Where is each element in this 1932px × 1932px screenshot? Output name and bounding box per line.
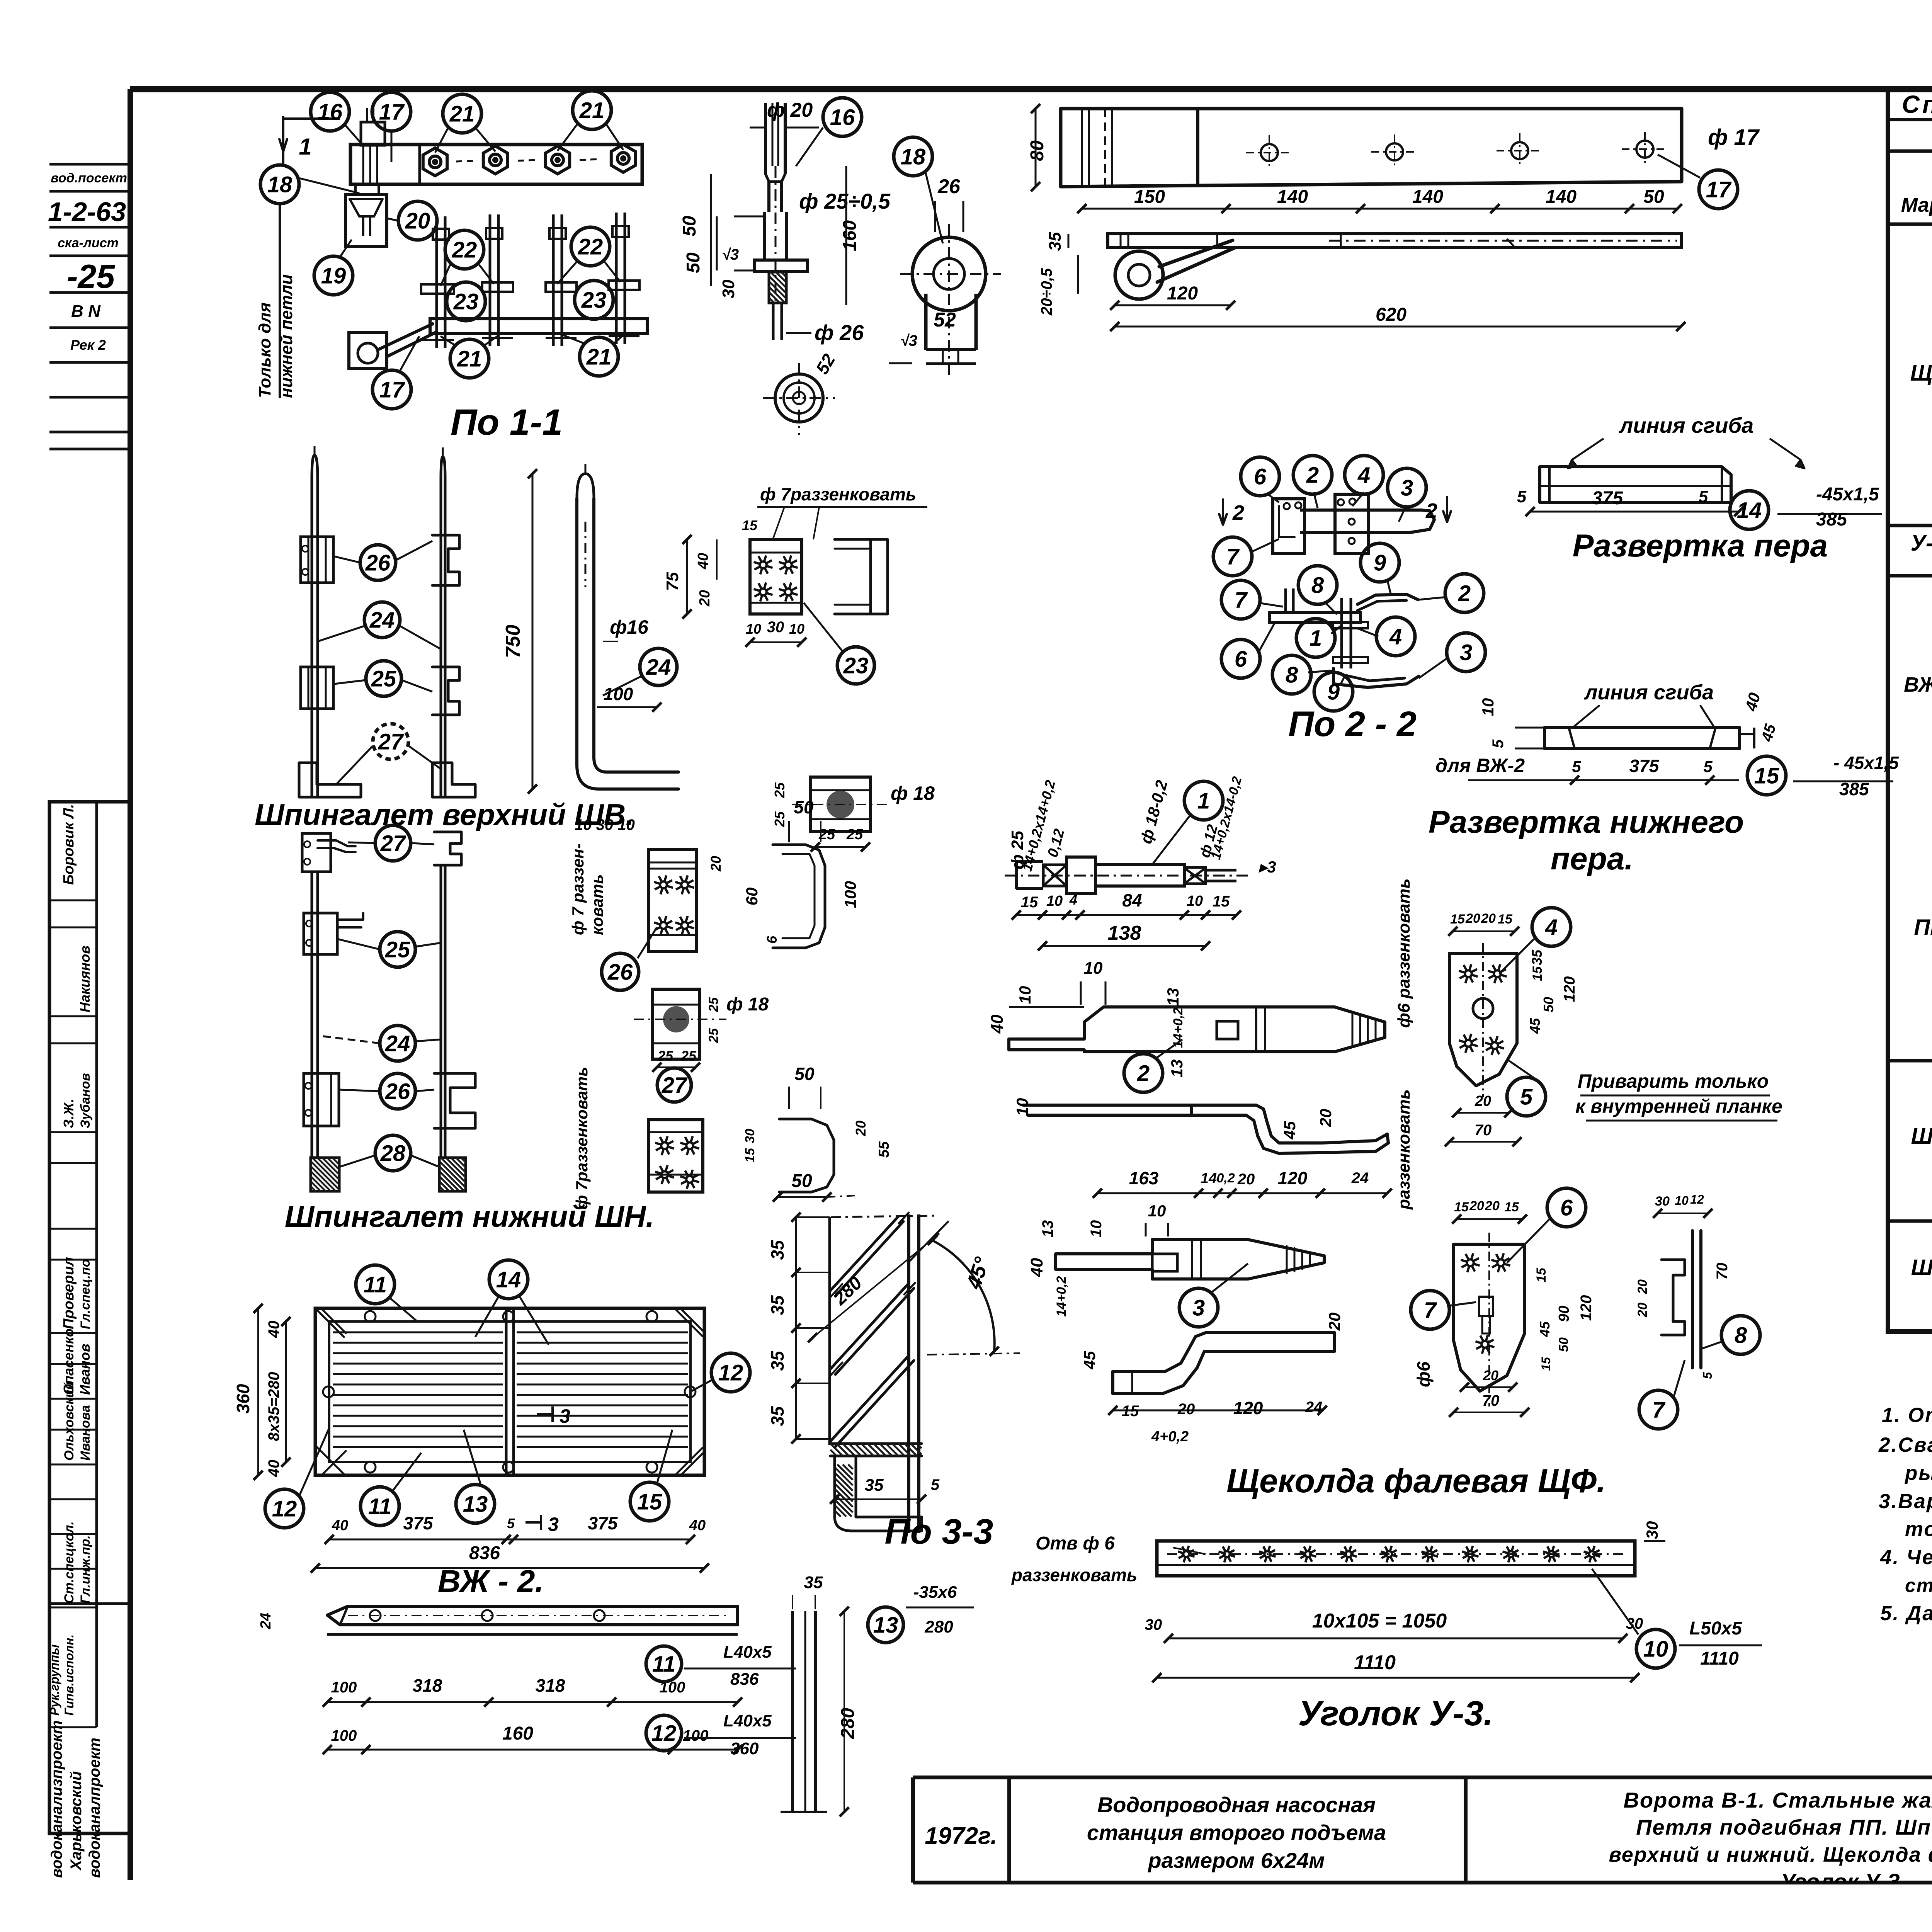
balloon 3 — [1447, 633, 1485, 672]
svg-text:17: 17 — [379, 377, 405, 402]
svg-text:7: 7 — [1235, 587, 1248, 612]
svg-text:15: 15 — [1454, 1200, 1469, 1214]
svg-text:▸3: ▸3 — [1259, 858, 1276, 876]
svg-text:50: 50 — [1643, 187, 1664, 207]
svg-text:52: 52 — [934, 309, 956, 331]
svg-text:100: 100 — [683, 1727, 709, 1744]
balloon 1 — [1184, 781, 1223, 820]
po 2-2 section marks — [1222, 498, 1224, 526]
svg-text:23: 23 — [453, 289, 479, 314]
balloon 15 — [630, 1482, 669, 1521]
upper star plate — [750, 539, 802, 614]
po 3-3 left rail — [828, 1217, 831, 1445]
svg-text:ШВ: ШВ — [1911, 1124, 1932, 1149]
svg-text:Рук.группы: Рук.группы — [48, 1645, 61, 1716]
svg-text:Ворота В-1. Стальные жалюзи: Ворота В-1. Стальные жалюзи ВЖ-2. — [1623, 1788, 1932, 1812]
svg-text:24: 24 — [1305, 1399, 1323, 1416]
balloon 2 — [1124, 1054, 1163, 1092]
svg-text:70: 70 — [1714, 1263, 1731, 1280]
balloon 24 — [380, 1026, 415, 1061]
svg-text:Щеколда фалевая ЩФ.: Щеколда фалевая ЩФ. — [1226, 1463, 1606, 1500]
svg-text:линия сгиба: линия сгиба — [1583, 681, 1714, 704]
svg-text:15: 15 — [1754, 763, 1779, 788]
svg-text:Иванов: Иванов — [77, 1344, 93, 1395]
svg-text:30: 30 — [1655, 1194, 1670, 1209]
shpingalet nizhnij top brackets — [302, 833, 331, 872]
hinge corner block — [349, 333, 387, 369]
svg-text:75: 75 — [663, 572, 682, 591]
svg-text:17: 17 — [1706, 177, 1732, 202]
svg-text:ЩФ: ЩФ — [1910, 361, 1932, 386]
svg-text:150: 150 — [1134, 187, 1165, 207]
svg-text:Отв ф 6: Отв ф 6 — [1036, 1533, 1115, 1554]
svg-text:10: 10 — [1675, 1194, 1689, 1207]
svg-text:26: 26 — [937, 175, 961, 198]
vzh-2 center divider — [505, 1308, 508, 1475]
balloon 26 — [380, 1073, 415, 1109]
po 3-3 35 dims — [795, 1217, 797, 1439]
balloon 24 — [640, 648, 677, 685]
svg-text:20: 20 — [697, 590, 713, 607]
balloon 22 — [445, 230, 484, 269]
balloon 20 — [398, 201, 437, 240]
svg-text:15: 15 — [1122, 1403, 1139, 1420]
svg-text:6: 6 — [764, 935, 780, 944]
balloon 26 — [602, 953, 639, 990]
svg-text:8х35=280: 8х35=280 — [265, 1372, 282, 1441]
balloon 11 — [646, 1646, 682, 1682]
svg-text:35: 35 — [804, 1573, 823, 1592]
svg-text:25: 25 — [657, 1048, 673, 1064]
svg-text:ф 18: ф 18 — [891, 782, 935, 804]
balloon 19 — [314, 256, 353, 295]
svg-text:375: 375 — [403, 1513, 434, 1533]
detail 3 bar — [1056, 1240, 1324, 1279]
svg-text:24: 24 — [1351, 1170, 1369, 1187]
svg-text:40: 40 — [265, 1460, 282, 1478]
svg-text:26: 26 — [607, 959, 633, 985]
balloon 23 — [447, 282, 485, 321]
svg-text:22: 22 — [452, 237, 477, 262]
balloon 7 — [1221, 580, 1260, 619]
svg-text:35: 35 — [1529, 949, 1545, 965]
svg-text:375: 375 — [1592, 488, 1623, 509]
upper hook bracket — [835, 539, 888, 614]
hex nut 21 a — [423, 148, 447, 176]
svg-text:45: 45 — [1527, 1018, 1543, 1034]
svg-text:25: 25 — [706, 997, 721, 1012]
balloon 14 — [1730, 491, 1769, 529]
title block vertical lines — [911, 1777, 915, 1883]
svg-text:1110: 1110 — [1700, 1648, 1739, 1669]
vzh-2 section mark 3 — [537, 1413, 553, 1415]
svg-text:45: 45 — [1537, 1321, 1553, 1337]
svg-text:17: 17 — [379, 99, 405, 124]
svg-text:25: 25 — [371, 666, 396, 691]
svg-text:5: 5 — [1490, 739, 1507, 748]
po 2-2 top view assembly — [1273, 499, 1304, 553]
svg-text:24: 24 — [385, 1031, 410, 1056]
lower star plate 2 — [649, 1120, 703, 1192]
title block top line — [913, 1776, 1932, 1779]
svg-text:40: 40 — [988, 1014, 1007, 1034]
svg-text:Развертка нижнего: Развертка нижнего — [1429, 804, 1744, 840]
svg-text:5. Данный лист рассматривать: 5. Данный лист рассматривать совместно с… — [1880, 1602, 1932, 1625]
svg-text:5: 5 — [1572, 757, 1581, 776]
svg-text:Водопроводная насосная: Водопроводная насосная — [1097, 1793, 1376, 1817]
svg-text:По 1-1: По 1-1 — [451, 402, 563, 443]
svg-text:Проверил: Проверил — [61, 1257, 77, 1329]
svg-text:3: 3 — [1192, 1295, 1205, 1320]
balloon 6 — [1547, 1188, 1586, 1227]
svg-text:120: 120 — [1561, 976, 1578, 1002]
hex nut 21 c — [546, 146, 570, 174]
sheet frame top border — [130, 86, 1932, 92]
balloon 6 — [1241, 457, 1279, 496]
bolt group c — [552, 214, 555, 346]
svg-text:ВЖ-2: ВЖ-2 — [1904, 673, 1932, 696]
balloon 21 — [573, 91, 611, 129]
svg-text:З.Ж.: З.Ж. — [61, 1099, 77, 1128]
hex nut 21 b — [483, 146, 507, 174]
svg-text:3: 3 — [1460, 640, 1472, 665]
svg-text:16: 16 — [830, 105, 855, 130]
upper f18 plate — [810, 777, 871, 832]
svg-text:По 3-3: По 3-3 — [885, 1512, 993, 1551]
margin stamp table top-left — [49, 163, 130, 166]
svg-text:20: 20 — [1475, 1093, 1491, 1109]
svg-text:70: 70 — [1475, 1122, 1492, 1139]
svg-text:10х105 = 1050: 10х105 = 1050 — [1312, 1610, 1447, 1632]
vzh-2 panel outer — [315, 1308, 704, 1475]
svg-text:1. Отверстия ф 6мм сверлёные,: 1. Отверстия ф 6мм сверлёные, раззенкова… — [1882, 1404, 1932, 1427]
svg-text:вод.посект: вод.посект — [51, 171, 127, 185]
lower f18 plate — [652, 989, 700, 1059]
svg-text:верхний и нижний. Щеколда фал: верхний и нижний. Щеколда фалевая ЩФ. — [1609, 1843, 1932, 1866]
svg-text:Ст.спецкол.: Ст.спецкол. — [62, 1521, 77, 1604]
svg-text:10: 10 — [1013, 1098, 1031, 1116]
balloon 8 — [1721, 1316, 1760, 1354]
svg-text:120: 120 — [1578, 1295, 1595, 1321]
gusset plate 2 — [1454, 1244, 1525, 1391]
razvertka pera bar — [1540, 467, 1731, 502]
svg-text:30: 30 — [743, 1129, 757, 1143]
hinge pin top view — [361, 122, 385, 145]
svg-text:Развертка пера: Развертка пера — [1573, 528, 1828, 563]
svg-text:35: 35 — [767, 1350, 787, 1371]
svg-text:водоканалпроект: водоканалпроект — [86, 1738, 103, 1878]
vzh-2 corner hatches — [317, 1310, 346, 1337]
svg-text:385: 385 — [1816, 509, 1847, 530]
svg-text:ШН: ШН — [1911, 1255, 1932, 1280]
balloon 21 — [580, 337, 618, 376]
svg-text:20: 20 — [1481, 911, 1496, 926]
svg-text:15: 15 — [1534, 1267, 1549, 1282]
bolt detail flange — [754, 260, 808, 272]
svg-text:4+0,2: 4+0,2 — [1151, 1429, 1189, 1445]
balloon 8 — [1298, 566, 1337, 604]
svg-text:55: 55 — [876, 1141, 892, 1158]
svg-text:120: 120 — [1167, 283, 1198, 304]
svg-text:140: 140 — [1412, 187, 1443, 207]
shpingalet nizhnij mid plate — [304, 913, 337, 954]
z-strap 2 — [1113, 1333, 1335, 1394]
svg-text:20: 20 — [1237, 1171, 1255, 1188]
svg-text:19: 19 — [321, 263, 346, 288]
shpingalet verhnij rods — [312, 479, 318, 797]
svg-text:1: 1 — [1197, 788, 1210, 813]
svg-text:пера.: пера. — [1551, 841, 1633, 876]
svg-text:35: 35 — [865, 1476, 884, 1495]
svg-text:4. Чертеж заимствован из ти: 4. Чертеж заимствован из типового проект… — [1880, 1546, 1932, 1569]
ugolok u-3 bar — [1157, 1541, 1635, 1576]
hex nut 21 d — [611, 145, 635, 172]
balloon 11 — [356, 1265, 395, 1304]
shpingalet nizhnij rods — [312, 872, 318, 1158]
svg-text:24: 24 — [369, 607, 395, 633]
svg-text:4: 4 — [1357, 463, 1370, 488]
shpingalet nizhnij lower brackets — [304, 1073, 339, 1126]
svg-text:15: 15 — [1450, 912, 1465, 927]
svg-text:√3: √3 — [900, 332, 917, 349]
svg-text:280: 280 — [924, 1617, 953, 1636]
svg-text:15: 15 — [742, 517, 758, 533]
svg-text:25: 25 — [385, 937, 410, 962]
svg-text:30: 30 — [1643, 1521, 1661, 1539]
svg-text:20÷0,5: 20÷0,5 — [1038, 268, 1055, 316]
hinge plate top view — [350, 145, 642, 184]
balloon 2 — [1293, 456, 1332, 494]
angle end dims — [1658, 1213, 1708, 1214]
balloon 2 — [1445, 574, 1484, 612]
svg-text:ф6: ф6 — [1413, 1361, 1434, 1387]
balloon 4 — [1345, 456, 1383, 494]
shpingalet nizhnij feet — [311, 1158, 339, 1191]
svg-text:5: 5 — [1699, 487, 1708, 506]
svg-text:ф16: ф16 — [610, 616, 649, 638]
svg-text:35: 35 — [767, 1295, 787, 1315]
svg-text:12: 12 — [1690, 1192, 1704, 1206]
svg-text:10: 10 — [1016, 986, 1034, 1004]
svg-text:3: 3 — [548, 1514, 559, 1535]
svg-text:Рек 2: Рек 2 — [70, 337, 106, 353]
vertical bar 35x6 — [791, 1611, 794, 1812]
svg-text:836: 836 — [469, 1543, 500, 1563]
balloon 27 — [375, 825, 411, 861]
svg-text:1: 1 — [299, 134, 311, 160]
svg-text:20: 20 — [853, 1121, 869, 1136]
balloon 25 — [380, 932, 415, 967]
svg-text:21: 21 — [586, 344, 612, 369]
gusset plate 1 — [1449, 953, 1517, 1086]
hinge strap holes — [1261, 144, 1278, 161]
balloon 12 — [646, 1715, 682, 1751]
po 3-3 280 diagonal dim — [813, 1238, 934, 1338]
svg-text:ска-лист: ска-лист — [58, 236, 119, 250]
balloon 14 — [489, 1260, 528, 1299]
svg-text:12: 12 — [651, 1721, 677, 1746]
svg-text:50: 50 — [791, 1171, 812, 1191]
svg-text:40: 40 — [695, 553, 711, 570]
svg-text:10 30 10: 10 30 10 — [575, 816, 635, 833]
svg-text:рые привариваются швом 2 мм: рые привариваются швом 2 мм. — [1904, 1462, 1932, 1485]
svg-text:Гл.инж.пр.: Гл.инж.пр. — [78, 1535, 93, 1604]
svg-text:7: 7 — [1652, 1397, 1666, 1422]
svg-text:50: 50 — [1556, 1337, 1571, 1352]
svg-text:20: 20 — [1635, 1279, 1650, 1294]
svg-text:20: 20 — [708, 856, 724, 872]
balloon 21 — [443, 94, 481, 133]
lower hook 1 — [773, 845, 825, 948]
lower hook 2 — [779, 1119, 834, 1192]
svg-text:водоканализпроект: водоканализпроект — [48, 1720, 65, 1878]
svg-text:20: 20 — [1485, 1199, 1500, 1213]
svg-text:318: 318 — [536, 1675, 565, 1696]
svg-text:Спецификация стали на 1 штуку: Спецификация стали на 1 штуку каждой мар… — [1902, 90, 1932, 118]
svg-text:тонколистовых элементов.: тонколистовых элементов. — [1905, 1518, 1932, 1541]
svg-text:385: 385 — [1839, 779, 1869, 799]
svg-text:Накиянов: Накиянов — [77, 946, 93, 1012]
svg-text:10: 10 — [1088, 1220, 1105, 1238]
svg-text:750: 750 — [502, 625, 524, 658]
svg-text:ф 18: ф 18 — [726, 994, 769, 1015]
svg-text:9: 9 — [1374, 550, 1386, 575]
svg-text:20: 20 — [1469, 1199, 1484, 1213]
svg-text:13: 13 — [1168, 1060, 1186, 1078]
po 3-3 slat 2 — [830, 1283, 909, 1369]
balloon 8 — [1272, 655, 1311, 694]
svg-text:35: 35 — [767, 1406, 787, 1426]
svg-text:ф 7раззенковать: ф 7раззенковать — [760, 484, 916, 504]
svg-text:23: 23 — [581, 287, 607, 313]
svg-text:70: 70 — [1482, 1392, 1500, 1409]
vzh-2 frame circles — [365, 1311, 376, 1322]
svg-text:14+0,2: 14+0,2 — [1054, 1276, 1069, 1316]
svg-text:3: 3 — [560, 1405, 570, 1427]
hook rod dims — [532, 474, 534, 789]
svg-text:размером 6х24м: размером 6х24м — [1147, 1848, 1325, 1872]
svg-text:620: 620 — [1376, 304, 1406, 325]
svg-text:L50х5: L50х5 — [1689, 1618, 1742, 1639]
lower hinge assembly bar — [430, 319, 647, 333]
balloon 13 — [456, 1485, 495, 1523]
balloon 27 — [657, 1068, 691, 1102]
gusset plate 2 dims — [1457, 1218, 1522, 1220]
svg-text:84: 84 — [1122, 890, 1142, 910]
svg-text:163: 163 — [1129, 1168, 1159, 1188]
svg-text:8: 8 — [1735, 1323, 1747, 1348]
svg-text:9: 9 — [1327, 679, 1340, 704]
svg-text:50: 50 — [679, 216, 700, 236]
svg-text:15: 15 — [637, 1489, 662, 1514]
svg-text:60: 60 — [743, 888, 761, 906]
balloon 17 — [1699, 170, 1738, 209]
svg-text:26: 26 — [385, 1079, 410, 1104]
svg-text:35: 35 — [1046, 232, 1065, 251]
svg-text:5: 5 — [1701, 1372, 1714, 1379]
svg-text:50: 50 — [794, 1064, 815, 1084]
svg-text:ф 20: ф 20 — [767, 99, 813, 121]
svg-text:2: 2 — [1306, 463, 1319, 488]
po 3-3 bottom angle — [830, 1444, 922, 1456]
svg-text:80: 80 — [1027, 140, 1048, 161]
hinge rod eye — [1115, 251, 1163, 299]
svg-text:11: 11 — [364, 1272, 387, 1297]
balloon 17 — [372, 370, 411, 409]
svg-text:20: 20 — [1316, 1109, 1335, 1128]
svg-text:20: 20 — [1325, 1313, 1344, 1331]
svg-text:26: 26 — [365, 550, 391, 575]
svg-text:7: 7 — [1424, 1298, 1437, 1323]
svg-text:2: 2 — [1425, 499, 1437, 522]
svg-text:22: 22 — [578, 234, 603, 259]
svg-text:24: 24 — [258, 1613, 274, 1629]
svg-text:ф6 раззенковать: ф6 раззенковать — [1395, 878, 1413, 1028]
svg-text:раззенковать: раззенковать — [1395, 1089, 1413, 1210]
svg-text:30: 30 — [719, 279, 738, 298]
po 3-3 top dash line — [831, 1216, 939, 1217]
svg-text:2: 2 — [1458, 581, 1471, 606]
svg-text:0,2: 0,2 — [1216, 1171, 1235, 1185]
svg-text:30: 30 — [767, 619, 784, 636]
angle bar plan — [327, 1606, 738, 1625]
gusset plate 1 dims — [1453, 930, 1515, 932]
balloon 5 — [1507, 1077, 1546, 1116]
svg-text:20: 20 — [1465, 911, 1480, 926]
svg-text:15: 15 — [1213, 893, 1230, 910]
svg-text:25: 25 — [772, 782, 787, 798]
svg-text:√3: √3 — [722, 246, 739, 263]
sheet frame left border — [128, 89, 133, 1880]
svg-text:Марка: Марка — [1901, 194, 1932, 216]
balloon 18 — [894, 137, 932, 176]
svg-text:23: 23 — [843, 653, 869, 678]
svg-text:25: 25 — [680, 1048, 697, 1064]
svg-text:375: 375 — [588, 1513, 618, 1533]
spec table header band lines — [1888, 118, 1932, 121]
svg-text:160: 160 — [502, 1723, 533, 1744]
balloon 26 — [360, 545, 396, 580]
svg-text:У-3: У-3 — [1911, 531, 1932, 556]
svg-text:375: 375 — [1629, 756, 1660, 776]
balloon 7 — [1213, 537, 1252, 576]
svg-text:Уголок У-3.: Уголок У-3. — [1298, 1694, 1493, 1733]
svg-text:318: 318 — [413, 1675, 442, 1696]
svg-text:5: 5 — [1703, 757, 1713, 776]
svg-text:27: 27 — [378, 729, 404, 754]
title block bottom line — [913, 1881, 1932, 1884]
balloon 18 — [260, 165, 299, 204]
balloon 7 — [1411, 1291, 1449, 1329]
svg-text:15: 15 — [1504, 1200, 1519, 1214]
svg-text:стройпроекта 1961г. Серия П-20: стройпроекта 1961г. Серия П-206, выпуск … — [1905, 1575, 1932, 1596]
svg-text:10: 10 — [1148, 1202, 1166, 1220]
svg-text:50: 50 — [794, 797, 814, 817]
section mark 1 left — [282, 116, 284, 166]
balloon 11 — [361, 1487, 399, 1526]
svg-text:4: 4 — [1545, 915, 1558, 940]
svg-text:линия сгиба: линия сгиба — [1619, 413, 1754, 437]
balloon 9 — [1314, 672, 1353, 711]
balloon 3 — [1179, 1288, 1218, 1327]
svg-text:-45х1,5: -45х1,5 — [1816, 484, 1879, 505]
svg-text:280: 280 — [838, 1708, 858, 1739]
svg-text:12: 12 — [272, 1496, 297, 1521]
svg-text:Харьковский: Харьковский — [68, 1771, 85, 1871]
svg-text:15: 15 — [1498, 912, 1513, 927]
svg-text:4: 4 — [1069, 892, 1077, 908]
svg-text:20: 20 — [405, 208, 430, 233]
